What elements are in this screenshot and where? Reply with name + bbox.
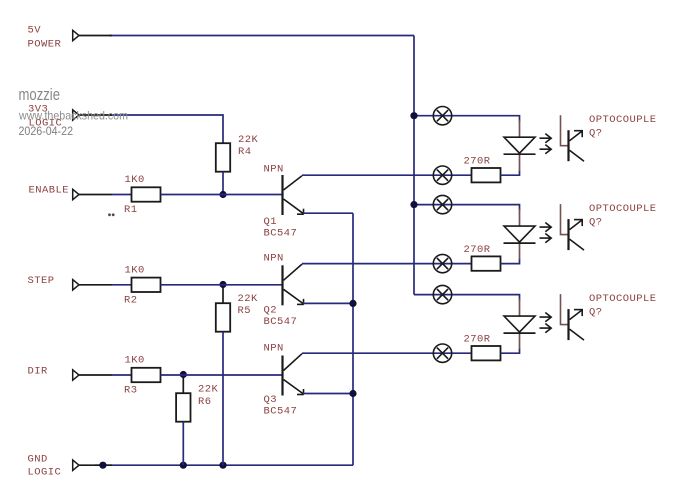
svg-text:NPN: NPN bbox=[264, 343, 284, 355]
connector pin 5V POWER bbox=[73, 30, 112, 40]
svg-text:R3: R3 bbox=[124, 385, 138, 397]
lamp/terminal symbol X2b bbox=[433, 254, 451, 272]
junction dot GND/R6 bbox=[180, 462, 187, 469]
connector pin ENABLE bbox=[73, 189, 112, 199]
stray dots artifact bbox=[108, 213, 111, 216]
connector pin GND LOGIC bbox=[73, 460, 112, 470]
svg-text:DIR: DIR bbox=[28, 366, 49, 378]
svg-text:1K0: 1K0 bbox=[125, 264, 145, 276]
resistor R2 body bbox=[132, 278, 161, 292]
LED3 leads bbox=[519, 299, 521, 317]
svg-text:1K0: 1K0 bbox=[125, 355, 145, 367]
svg-text:22K: 22K bbox=[238, 293, 259, 305]
svg-text:2026-04-22: 2026-04-22 bbox=[19, 126, 74, 138]
wire Q2 collector to 270R #2 bbox=[302, 263, 472, 265]
svg-text:Q1: Q1 bbox=[264, 216, 278, 228]
svg-text:Q2: Q2 bbox=[264, 305, 278, 317]
svg-text:5V: 5V bbox=[28, 25, 42, 37]
resistor R6 body bbox=[176, 393, 190, 422]
lamp/terminal symbol X1a bbox=[433, 107, 451, 125]
wire Q1 emitter to emitter bus bbox=[303, 212, 353, 214]
junction dot GND/R5 bbox=[219, 462, 226, 469]
wire 5V rail horizontal bbox=[109, 35, 414, 37]
svg-text:NPN: NPN bbox=[264, 164, 284, 176]
wire R6 to GND bbox=[182, 422, 184, 466]
wire 5V bus to LED2 anode bbox=[414, 205, 520, 211]
junction dot R4/ENABLE bbox=[219, 191, 226, 198]
wire R2 to Q2 base bbox=[161, 284, 283, 286]
wire ENABLE pin to R1 bbox=[112, 194, 132, 196]
wire STEP node to R5 bbox=[222, 285, 224, 304]
wire 5V bus to LED1 anode bbox=[414, 116, 520, 122]
svg-text:www.thebackshed.com: www.thebackshed.com bbox=[18, 109, 128, 123]
transistor Q1 (NPN BC547) bbox=[283, 175, 304, 215]
wire GND bus bbox=[95, 464, 353, 466]
wire STEP pin to R2 bbox=[112, 284, 132, 286]
svg-text:R5: R5 bbox=[238, 305, 252, 317]
svg-text:OPTOCOUPLE: OPTOCOUPLE bbox=[589, 114, 657, 126]
junction dot R6/DIR bbox=[180, 371, 187, 378]
svg-text:ENABLE: ENABLE bbox=[29, 185, 70, 197]
svg-text:LOGIC: LOGIC bbox=[28, 467, 62, 479]
optocoupler phototransistor #3 bbox=[561, 294, 585, 340]
svg-text:270R: 270R bbox=[464, 244, 491, 256]
resistor R3 body bbox=[132, 368, 161, 382]
junction dot GND stub bbox=[99, 462, 106, 469]
svg-text:1K0: 1K0 bbox=[125, 174, 145, 186]
wire DIR pin to R3 bbox=[112, 374, 132, 376]
svg-text:NPN: NPN bbox=[264, 253, 284, 265]
lamp/terminal symbol X2a bbox=[433, 195, 451, 213]
wire emitter bus to GND bbox=[352, 213, 354, 465]
resistor 270R #1 body bbox=[472, 168, 501, 182]
wire DIR node to R6 bbox=[182, 375, 184, 394]
wire Q2 emitter to emitter bus bbox=[303, 302, 353, 304]
svg-text:POWER: POWER bbox=[28, 39, 62, 51]
svg-text:R2: R2 bbox=[124, 294, 138, 306]
svg-text:OPTOCOUPLE: OPTOCOUPLE bbox=[589, 203, 657, 215]
wire Q3 emitter to emitter bus bbox=[303, 393, 353, 395]
svg-text:GND: GND bbox=[28, 454, 48, 466]
svg-text:Q?: Q? bbox=[589, 217, 603, 229]
svg-text:R1: R1 bbox=[124, 204, 138, 216]
junction dot emitter bus Q3 bbox=[349, 390, 356, 397]
svg-text:BC547: BC547 bbox=[264, 406, 298, 418]
junction dot R5/STEP bbox=[219, 281, 226, 288]
lamp/terminal symbol X3b bbox=[433, 344, 451, 362]
wire R3 to Q3 base bbox=[161, 374, 283, 376]
LED2 leads bbox=[519, 209, 521, 227]
transistor Q3 (NPN BC547) bbox=[283, 354, 304, 396]
wire Q3 collector to 270R #3 bbox=[302, 352, 472, 354]
wire R1 to Q1 base bbox=[161, 194, 283, 196]
lamp/terminal symbol X1b bbox=[433, 166, 451, 184]
connector pin DIR bbox=[73, 370, 112, 380]
resistor R4 body bbox=[216, 143, 230, 172]
wire 270R #2 to LED2 cathode bbox=[501, 259, 520, 264]
LED2 diode symbol bbox=[504, 226, 536, 243]
junction dot emitter bus Q2 bbox=[349, 300, 356, 307]
resistor R1 body bbox=[132, 187, 161, 201]
resistor 270R #3 body bbox=[472, 346, 501, 360]
connector pin STEP bbox=[73, 280, 112, 290]
light emission arrows LED2 bbox=[540, 223, 552, 243]
svg-text:22K: 22K bbox=[198, 384, 219, 396]
svg-text:22K: 22K bbox=[238, 134, 259, 146]
optocoupler phototransistor #1 bbox=[561, 115, 585, 161]
light emission arrows LED1 bbox=[540, 134, 552, 154]
light emission arrows LED3 bbox=[540, 313, 552, 333]
svg-text:Q3: Q3 bbox=[264, 394, 278, 406]
wire 3V3 rail bbox=[109, 115, 223, 143]
svg-text:BC547: BC547 bbox=[264, 316, 298, 328]
wire 5V bus to LED3 anode bbox=[414, 295, 520, 301]
svg-text:270R: 270R bbox=[464, 334, 491, 346]
LED1 diode symbol bbox=[504, 137, 536, 154]
svg-text:R6: R6 bbox=[198, 396, 212, 408]
wire R5 to GND bbox=[222, 332, 224, 466]
wire Q1 collector to 270R #1 bbox=[302, 174, 472, 176]
svg-text:mozzie: mozzie bbox=[19, 86, 61, 104]
resistor R5 body bbox=[216, 303, 230, 332]
svg-text:STEP: STEP bbox=[28, 275, 55, 287]
junction dot 5V bus #2 bbox=[410, 201, 417, 208]
LED3 diode symbol bbox=[504, 316, 536, 333]
connector pin 3V3 LOGIC bbox=[73, 110, 112, 120]
svg-text:OPTOCOUPLE: OPTOCOUPLE bbox=[589, 293, 657, 305]
lamp/terminal symbol X3a bbox=[433, 285, 451, 303]
svg-text:270R: 270R bbox=[464, 156, 491, 168]
wire 270R #1 to LED1 cathode bbox=[501, 170, 520, 175]
svg-text:BC547: BC547 bbox=[264, 228, 298, 240]
junction dot 5V bus #1 bbox=[410, 112, 417, 119]
transistor Q2 (NPN BC547) bbox=[283, 264, 304, 305]
LED1 leads bbox=[519, 120, 521, 138]
resistor 270R #2 body bbox=[472, 256, 501, 270]
wire 5V bus vertical bbox=[413, 36, 415, 295]
svg-text:R4: R4 bbox=[238, 146, 252, 158]
optocoupler phototransistor #2 bbox=[561, 204, 585, 250]
svg-text:Q?: Q? bbox=[589, 307, 603, 319]
wire 270R #3 to LED3 cathode bbox=[501, 348, 520, 353]
svg-text:Q?: Q? bbox=[589, 128, 603, 140]
wire R4 to ENABLE node bbox=[222, 172, 224, 195]
